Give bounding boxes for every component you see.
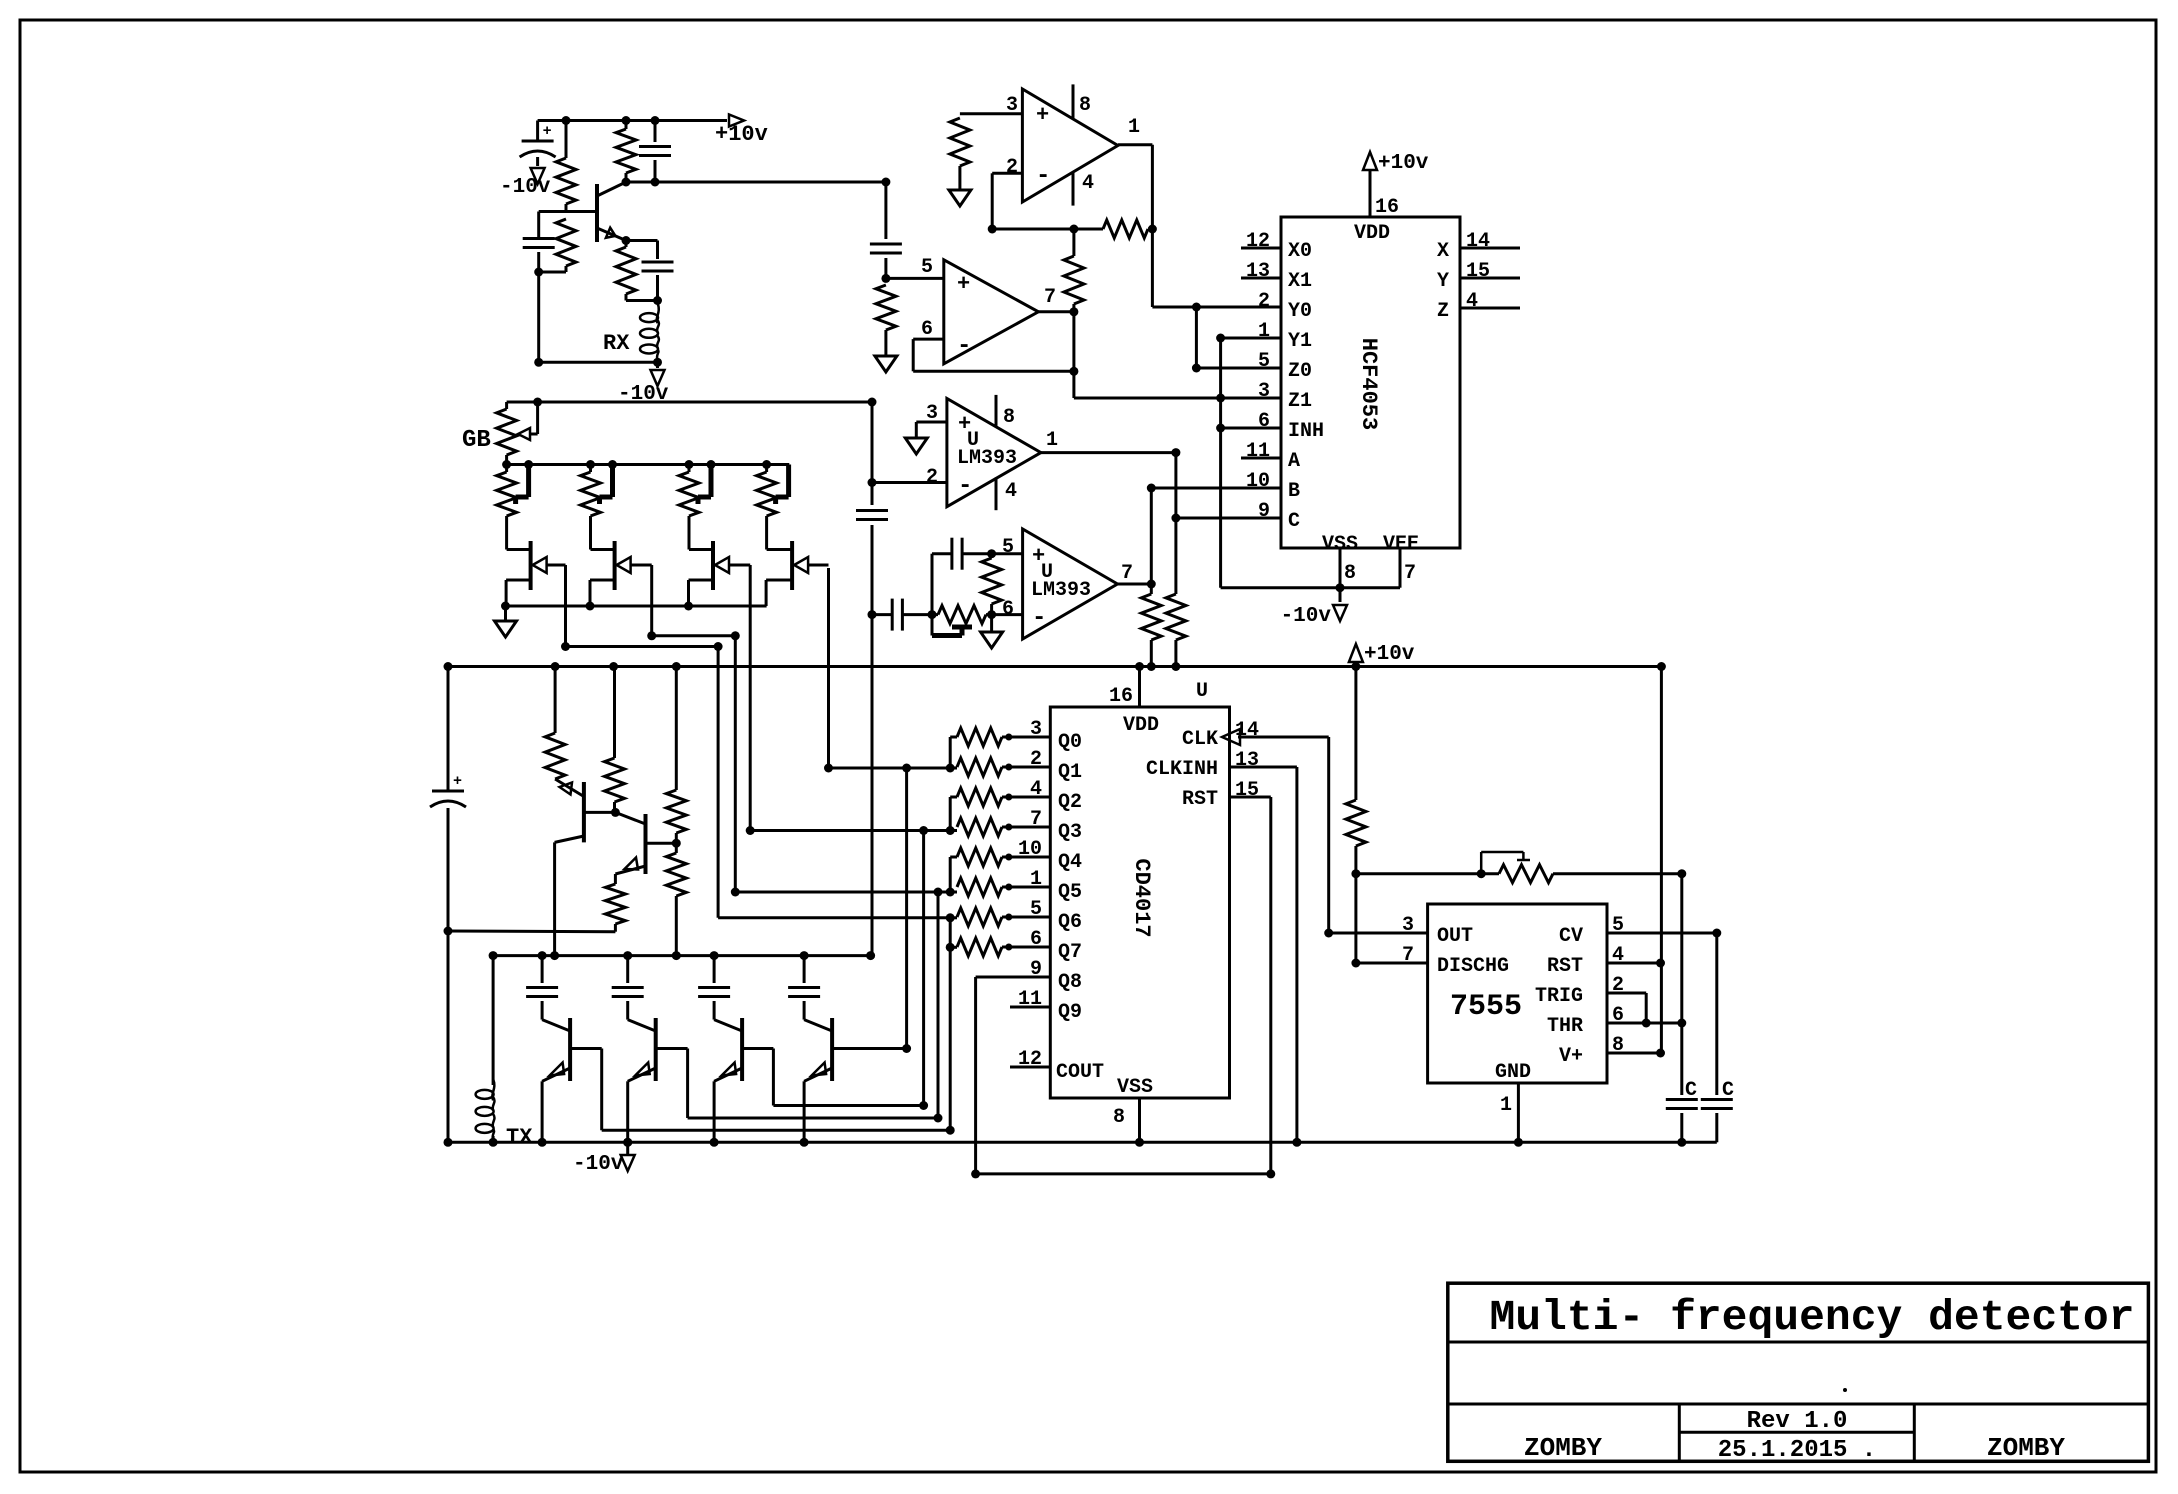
svg-text:+10v: +10v <box>1378 152 1429 175</box>
svg-text:X1: X1 <box>1288 270 1312 293</box>
capacitor C11 (driver Q9) <box>612 951 644 1020</box>
resistor R14 (T2 emitter) <box>605 884 625 932</box>
wire trim to THR/C1 vertical <box>1680 874 1683 1095</box>
wire DISCHG feed <box>1351 874 1427 968</box>
transistor Q10 PNP driver <box>710 1018 743 1147</box>
svg-text:8: 8 <box>1113 1106 1125 1129</box>
supply -10v arrow RX <box>618 362 669 406</box>
wire base Q11 <box>832 1044 911 1053</box>
svg-text:Y: Y <box>1437 270 1449 293</box>
wire pin5 U3B <box>992 552 1023 555</box>
svg-text:Q9: Q9 <box>1058 1001 1082 1024</box>
pin B <box>1151 470 1300 503</box>
wire trimmer rail <box>502 460 789 469</box>
svg-text:2: 2 <box>1258 290 1270 313</box>
trimmer RV4 <box>757 460 789 516</box>
transistor Q6 PNP <box>555 779 616 842</box>
ground pin3 U3A <box>905 438 927 454</box>
svg-text:1: 1 <box>1258 320 1270 343</box>
resistor R24 (Q7) <box>957 928 1082 964</box>
transistor Q4 PJF <box>689 516 751 606</box>
inductor RX coil <box>603 303 659 360</box>
svg-text:+: + <box>1036 103 1049 128</box>
pin Z0 <box>1258 350 1312 383</box>
svg-text:CD4017: CD4017 <box>1129 858 1154 937</box>
svg-text:+: + <box>543 123 552 140</box>
svg-text:TX: TX <box>506 1125 533 1150</box>
svg-text:2: 2 <box>1030 748 1042 771</box>
node emitter network <box>626 296 662 305</box>
op-amp U1A <box>1006 89 1140 202</box>
pin 4 line U1A <box>1072 172 1075 206</box>
svg-text:RX: RX <box>603 331 630 356</box>
svg-text:2: 2 <box>1006 156 1018 179</box>
svg-text:12: 12 <box>1018 1048 1042 1071</box>
label VEE pin7 <box>1383 533 1419 588</box>
svg-text:6: 6 <box>1258 410 1270 433</box>
svg-text:Z1: Z1 <box>1288 390 1312 413</box>
op-amp U3B LM393 <box>1002 529 1133 639</box>
wire Q4-Q5 link <box>946 857 957 897</box>
wire cap9 to T2 resistor <box>448 930 615 934</box>
coupling capacitor C5 (RX to pin5) <box>870 178 902 279</box>
wire base Q9 <box>656 1049 943 1123</box>
resistor R6 (feedback) <box>1103 220 1157 238</box>
svg-text:+10v: +10v <box>715 122 768 147</box>
pin CV <box>1559 914 1721 948</box>
wire base node left <box>539 212 566 239</box>
svg-text:6: 6 <box>1612 1004 1624 1027</box>
svg-text:-: - <box>957 333 971 360</box>
title Rev <box>1747 1408 1848 1435</box>
wire x872 lower end <box>871 615 874 956</box>
resistor R13 (T1 base feed) <box>605 662 625 817</box>
wire RX bottom <box>534 358 662 367</box>
wire Q2-Q3 link <box>946 797 957 835</box>
svg-text:6: 6 <box>1030 928 1042 951</box>
svg-text:Q3: Q3 <box>1058 821 1082 844</box>
trimmer RV6 (timing) <box>1481 852 1686 883</box>
svg-text:5: 5 <box>1612 914 1624 937</box>
pin Y stub <box>1437 260 1520 293</box>
svg-text:-10v: -10v <box>500 176 551 199</box>
wire collector to coupling cap <box>626 181 886 184</box>
svg-text:-: - <box>1036 163 1050 190</box>
svg-text:DISCHG: DISCHG <box>1437 955 1509 978</box>
svg-text:INH: INH <box>1288 420 1324 443</box>
pin C <box>1176 500 1300 533</box>
capacitor C3 (base) <box>523 239 555 277</box>
svg-text:3: 3 <box>1030 718 1042 741</box>
wire x448 to rail <box>444 931 453 1147</box>
svg-text:3: 3 <box>1258 380 1270 403</box>
svg-text:+: + <box>957 272 970 297</box>
resistor R16 (T2 base lower) <box>666 843 686 960</box>
svg-text:-: - <box>958 473 972 500</box>
pin Z stub <box>1437 290 1520 323</box>
wire FET gate rail <box>501 602 767 611</box>
svg-text:Q2: Q2 <box>1058 791 1082 814</box>
svg-text:CLKINH: CLKINH <box>1146 758 1218 781</box>
svg-text:CLK: CLK <box>1182 728 1218 751</box>
ground below R5 <box>949 190 971 206</box>
svg-text:B: B <box>1288 480 1300 503</box>
resistor R21 (Q4) <box>957 838 1082 874</box>
pin DISCHG <box>1402 944 1509 978</box>
node pin6 net <box>987 610 1023 619</box>
resistor R23 (Q6) <box>957 898 1082 934</box>
svg-text:Q6: Q6 <box>1058 911 1082 934</box>
capacitor C1 polarized (-10v decoupling) <box>520 121 556 167</box>
wire TX cap rail <box>493 951 875 960</box>
capacitor C12 (driver Q10) <box>698 951 730 1020</box>
pin COUT stub <box>1010 1048 1104 1084</box>
wire output1 U3A <box>1041 448 1181 457</box>
pin X0 stub <box>1241 230 1312 263</box>
svg-text:11: 11 <box>1018 988 1042 1011</box>
svg-text:4: 4 <box>1082 172 1094 195</box>
capacitor C8 (pin5 feedback) <box>932 538 992 615</box>
svg-text:4: 4 <box>1030 778 1042 801</box>
svg-text:8: 8 <box>1079 94 1091 117</box>
resistor R18 (Q1) <box>957 748 1082 784</box>
wire -10v rail <box>448 1141 1717 1144</box>
resistor R10 (feedback 5-6) <box>982 549 1002 614</box>
wire bus to RST/V+ vertical <box>1657 662 1666 1053</box>
title text <box>1489 1293 2134 1342</box>
svg-text:5: 5 <box>1030 898 1042 921</box>
supply -10v arrow rail <box>573 1138 635 1176</box>
svg-text:6: 6 <box>1002 598 1014 621</box>
wire F2 emitter jog <box>647 565 740 640</box>
svg-text:Q1: Q1 <box>1058 761 1082 784</box>
resistor R1 (Q1 base bias upper) <box>556 116 576 212</box>
wire +10v bus <box>448 665 1661 668</box>
svg-text:THR: THR <box>1547 1015 1583 1038</box>
svg-text:Q5: Q5 <box>1058 881 1082 904</box>
svg-text:10: 10 <box>1018 838 1042 861</box>
svg-text:VSS: VSS <box>1117 1076 1153 1099</box>
svg-text:GB: GB <box>462 427 491 454</box>
capacitor C2 (collector) <box>639 116 671 182</box>
svg-text:9: 9 <box>1030 958 1042 981</box>
resistor R20 (Q3) <box>957 808 1082 844</box>
supply +10v arrow 4053 <box>1363 152 1429 175</box>
wire pin3 U3A to gnd <box>916 422 947 437</box>
supply -10v arrow below C1 <box>500 168 551 199</box>
transistor Q3 PJF <box>590 516 652 606</box>
node collector Q1 <box>622 178 660 187</box>
wire base Q8 <box>570 1049 955 1135</box>
svg-text:9: 9 <box>1258 500 1270 523</box>
pin Z1 <box>1258 380 1312 413</box>
wire T2 emitter to R14 <box>614 874 617 884</box>
svg-text:8: 8 <box>1612 1034 1624 1057</box>
wire QT3 base vertical <box>922 831 925 1106</box>
wire F1 down to Q6 row <box>718 647 955 923</box>
svg-text:V+: V+ <box>1559 1045 1583 1068</box>
svg-text:7: 7 <box>1030 808 1042 831</box>
svg-text:X0: X0 <box>1288 240 1312 263</box>
capacitor C9 polarized <box>430 662 466 936</box>
svg-text:LM393: LM393 <box>1031 579 1091 602</box>
resistor R7 (divider to opampB out) <box>1064 229 1084 312</box>
svg-text:16: 16 <box>1375 196 1399 219</box>
title date <box>1718 1437 1876 1464</box>
svg-text:Multi- frequency detector: Multi- frequency detector <box>1489 1293 2134 1342</box>
svg-text:7555: 7555 <box>1450 990 1522 1024</box>
pin X stub <box>1437 230 1520 263</box>
capacitor C10 (driver Q8) <box>526 951 558 1020</box>
wire RXnet vertical x872 <box>871 402 874 505</box>
svg-text:RST: RST <box>1547 955 1583 978</box>
capacitor C13 (driver Q11) <box>788 951 820 1020</box>
pin RST 7555 <box>1547 944 1665 978</box>
wire out1 to C pin <box>1171 453 1180 523</box>
svg-text:ZOMBY: ZOMBY <box>1987 1433 2065 1463</box>
wire F4 down to Q1 row <box>824 568 950 773</box>
pin 8 line U3A <box>995 395 998 427</box>
pin THR <box>1547 1004 1686 1038</box>
svg-text:-10v: -10v <box>1281 605 1332 628</box>
transistor Q11 PNP driver <box>800 1018 833 1147</box>
transistor Q7 PNP <box>615 812 676 874</box>
resistor R15 (T2 base upper) <box>666 662 686 848</box>
wire output7 U1B <box>1038 307 1078 371</box>
svg-text:COUT: COUT <box>1056 1061 1104 1084</box>
capacitor C15 <box>1701 1079 1734 1142</box>
wire VSS VEE -10v <box>1221 583 1400 592</box>
svg-text:C: C <box>1685 1079 1697 1102</box>
label VDD pin16 <box>1354 170 1399 245</box>
svg-text:-10v: -10v <box>573 1153 624 1176</box>
resistor R17 (Q0) <box>957 718 1082 754</box>
capacitor C4 (emitter) <box>626 241 674 301</box>
resistor R5 (pin3 to gnd) <box>950 114 1023 189</box>
svg-text:4: 4 <box>1005 480 1017 503</box>
resistor R3 (Q1 base lower) <box>539 219 576 272</box>
transistor Q9 PNP driver <box>623 1018 656 1147</box>
label VDD pin16 4017 <box>1109 662 1208 737</box>
svg-text:12: 12 <box>1246 230 1270 253</box>
transistor Q1 NPN <box>566 182 626 242</box>
pin TRIG <box>1535 974 1651 1028</box>
resistor R8 (pin5 to gnd) <box>876 285 896 355</box>
wire feedback node y229 <box>992 225 1103 234</box>
transistor Q2 PJF <box>506 516 565 606</box>
svg-text:Z0: Z0 <box>1288 360 1312 383</box>
pin V+ <box>1559 1034 1665 1068</box>
svg-text:Rev 1.0: Rev 1.0 <box>1747 1408 1848 1435</box>
resistor R2 (Q1 collector load) <box>616 116 636 182</box>
svg-text:A: A <box>1288 450 1300 473</box>
svg-text:Q4: Q4 <box>1058 851 1082 874</box>
svg-text:-: - <box>1032 605 1046 632</box>
svg-text:RST: RST <box>1182 788 1218 811</box>
wire output7 U3B <box>1118 580 1156 589</box>
supply +10v arrow <box>715 115 768 148</box>
resistor R19 (Q2) <box>957 778 1082 814</box>
wire QT1 base vertical <box>946 918 955 1130</box>
transistor Q5 PJF <box>766 516 828 606</box>
svg-text:VDD: VDD <box>1354 222 1390 245</box>
svg-text:5: 5 <box>1258 350 1270 373</box>
pin 8 line U1A <box>1072 84 1075 119</box>
wire F1 emitter jog <box>561 565 723 651</box>
wire timing node <box>1356 869 1486 878</box>
svg-text:8: 8 <box>1344 562 1356 585</box>
wire to Z1 <box>1074 371 1281 402</box>
wire Y1 vertical <box>1219 338 1222 588</box>
svg-text:15: 15 <box>1466 260 1490 283</box>
pin 4 line U3A <box>995 477 998 510</box>
wire Q0-Q1 link <box>946 737 957 773</box>
pin Y1 <box>1216 320 1312 353</box>
svg-text:15: 15 <box>1235 779 1259 802</box>
svg-text:6: 6 <box>921 318 933 341</box>
label VSS pin8 <box>1322 533 1358 588</box>
pin INH <box>1216 410 1324 443</box>
svg-text:HCF4053: HCF4053 <box>1356 338 1381 430</box>
svg-text:2: 2 <box>1612 974 1624 997</box>
svg-text:Q7: Q7 <box>1058 941 1082 964</box>
ground pin6 net <box>981 615 1003 648</box>
resistor R4 (emitter) <box>616 236 636 301</box>
svg-text:VDD: VDD <box>1123 714 1159 737</box>
supply -10v arrow 4053 <box>1281 588 1347 628</box>
svg-text:1: 1 <box>1030 868 1042 891</box>
supply +10v arrow bus <box>1349 643 1415 671</box>
svg-text:2: 2 <box>926 466 938 489</box>
capacitor C7 (to pin6 net) <box>872 599 937 631</box>
svg-text:OUT: OUT <box>1437 925 1473 948</box>
svg-text:16: 16 <box>1109 685 1133 708</box>
resistor R12 (T1 emitter) <box>545 662 565 779</box>
inductor TX coil <box>476 951 534 1150</box>
pin Q9 stub <box>1010 988 1082 1024</box>
svg-text:11: 11 <box>1246 440 1270 463</box>
resistor R22 (Q5) <box>957 868 1082 904</box>
pin GND <box>1495 1061 1531 1147</box>
svg-text:13: 13 <box>1235 749 1259 772</box>
svg-text:C: C <box>1722 1079 1734 1102</box>
svg-text:C: C <box>1288 510 1300 533</box>
svg-text:+: + <box>453 773 462 790</box>
svg-text:1: 1 <box>1128 116 1140 139</box>
title ZOMBY right <box>1987 1433 2065 1463</box>
wire pin5 U1B <box>881 274 943 283</box>
wire F2 down to Q5 row <box>731 636 950 897</box>
svg-text:10: 10 <box>1246 470 1270 493</box>
title dot <box>1843 1388 1847 1392</box>
capacitor C14 <box>1666 1079 1698 1147</box>
wire base Q10 <box>742 1049 928 1111</box>
wire pin2 U3A <box>868 478 947 487</box>
wire T1 collector down <box>550 842 559 960</box>
svg-text:7: 7 <box>1121 562 1133 585</box>
resistor R11 (B pull) <box>1141 584 1161 671</box>
svg-text:Q0: Q0 <box>1058 731 1082 754</box>
svg-text:1: 1 <box>1500 1094 1512 1117</box>
svg-text:7: 7 <box>1402 944 1414 967</box>
capacitor C6 <box>856 511 888 620</box>
svg-text:14: 14 <box>1235 719 1259 742</box>
svg-text:13: 13 <box>1246 260 1270 283</box>
wire QT2 base vertical <box>937 892 940 1118</box>
svg-text:14: 14 <box>1466 230 1490 253</box>
wire Y0 feed <box>1152 303 1281 312</box>
ground below R8 <box>875 356 897 372</box>
svg-text:GND: GND <box>1495 1061 1531 1084</box>
svg-text:4: 4 <box>1466 290 1478 313</box>
potentiometer GB <box>462 402 538 465</box>
svg-text:7: 7 <box>1404 562 1416 585</box>
wire output down to Y0 <box>1151 229 1154 307</box>
svg-text:5: 5 <box>1002 536 1014 559</box>
svg-text:X: X <box>1437 240 1449 263</box>
wire Q6-Q7 link <box>950 918 957 948</box>
svg-text:7: 7 <box>1044 286 1056 309</box>
pin CLK wedge <box>1182 719 1333 938</box>
pin Q8 wire <box>976 958 1082 994</box>
svg-text:4: 4 <box>1612 944 1624 967</box>
wire pin6 feedback U1B <box>913 339 1078 376</box>
title block <box>1448 1283 2149 1461</box>
svg-text:1: 1 <box>1046 429 1058 452</box>
label VSS pin8 4017 <box>1113 1076 1153 1147</box>
svg-text:ZOMBY: ZOMBY <box>1524 1433 1602 1463</box>
IC U5 7555 box <box>1428 904 1607 1083</box>
pin RST wire <box>1182 779 1275 1178</box>
wire F3 down to Q3 row <box>746 565 951 835</box>
wire Z0 feed <box>1192 307 1281 373</box>
wire QT4 base vertical <box>905 768 908 1049</box>
svg-text:25.1.2015 .: 25.1.2015 . <box>1718 1437 1876 1464</box>
pin A stub <box>1241 440 1300 473</box>
svg-text:8: 8 <box>1003 406 1015 429</box>
svg-text:Q8: Q8 <box>1058 971 1082 994</box>
wire Q8 loop <box>971 977 1271 1178</box>
IC U2 HCF4053 box <box>1281 217 1460 548</box>
op-amp U1B <box>921 256 1056 364</box>
svg-text:Y0: Y0 <box>1288 300 1312 323</box>
ground FET rail <box>495 606 517 637</box>
wire pin2 U1A <box>988 173 1023 233</box>
IC U4 CD4017 box <box>1050 707 1229 1098</box>
svg-text:Z: Z <box>1437 300 1449 323</box>
wire CV to C15 vertical <box>1715 933 1718 1095</box>
svg-text:TRIG: TRIG <box>1535 985 1583 1008</box>
trimmer RV3 <box>679 460 716 516</box>
pin CLKINH wire <box>1146 749 1301 1147</box>
trimmer RV1 <box>497 460 533 516</box>
resistor R9 (C pull) <box>1166 518 1186 671</box>
pin OUT <box>1329 914 1473 948</box>
trimmer RV2 <box>581 460 618 516</box>
transistor Q8 PNP driver <box>538 1018 571 1147</box>
svg-text:5: 5 <box>921 256 933 279</box>
trimmer RV5 <box>932 606 992 636</box>
pin X1 stub <box>1241 260 1312 293</box>
svg-text:Y1: Y1 <box>1288 330 1312 353</box>
wire output1 U1A <box>1118 145 1153 229</box>
op-amp U3A LM393 <box>926 399 1058 507</box>
resistor R25 (timing upper) <box>1346 667 1366 879</box>
svg-text:U: U <box>1196 680 1208 703</box>
svg-text:CV: CV <box>1559 925 1583 948</box>
wire left vertical to bottom <box>537 272 540 362</box>
wire B net vertical <box>1147 484 1156 585</box>
